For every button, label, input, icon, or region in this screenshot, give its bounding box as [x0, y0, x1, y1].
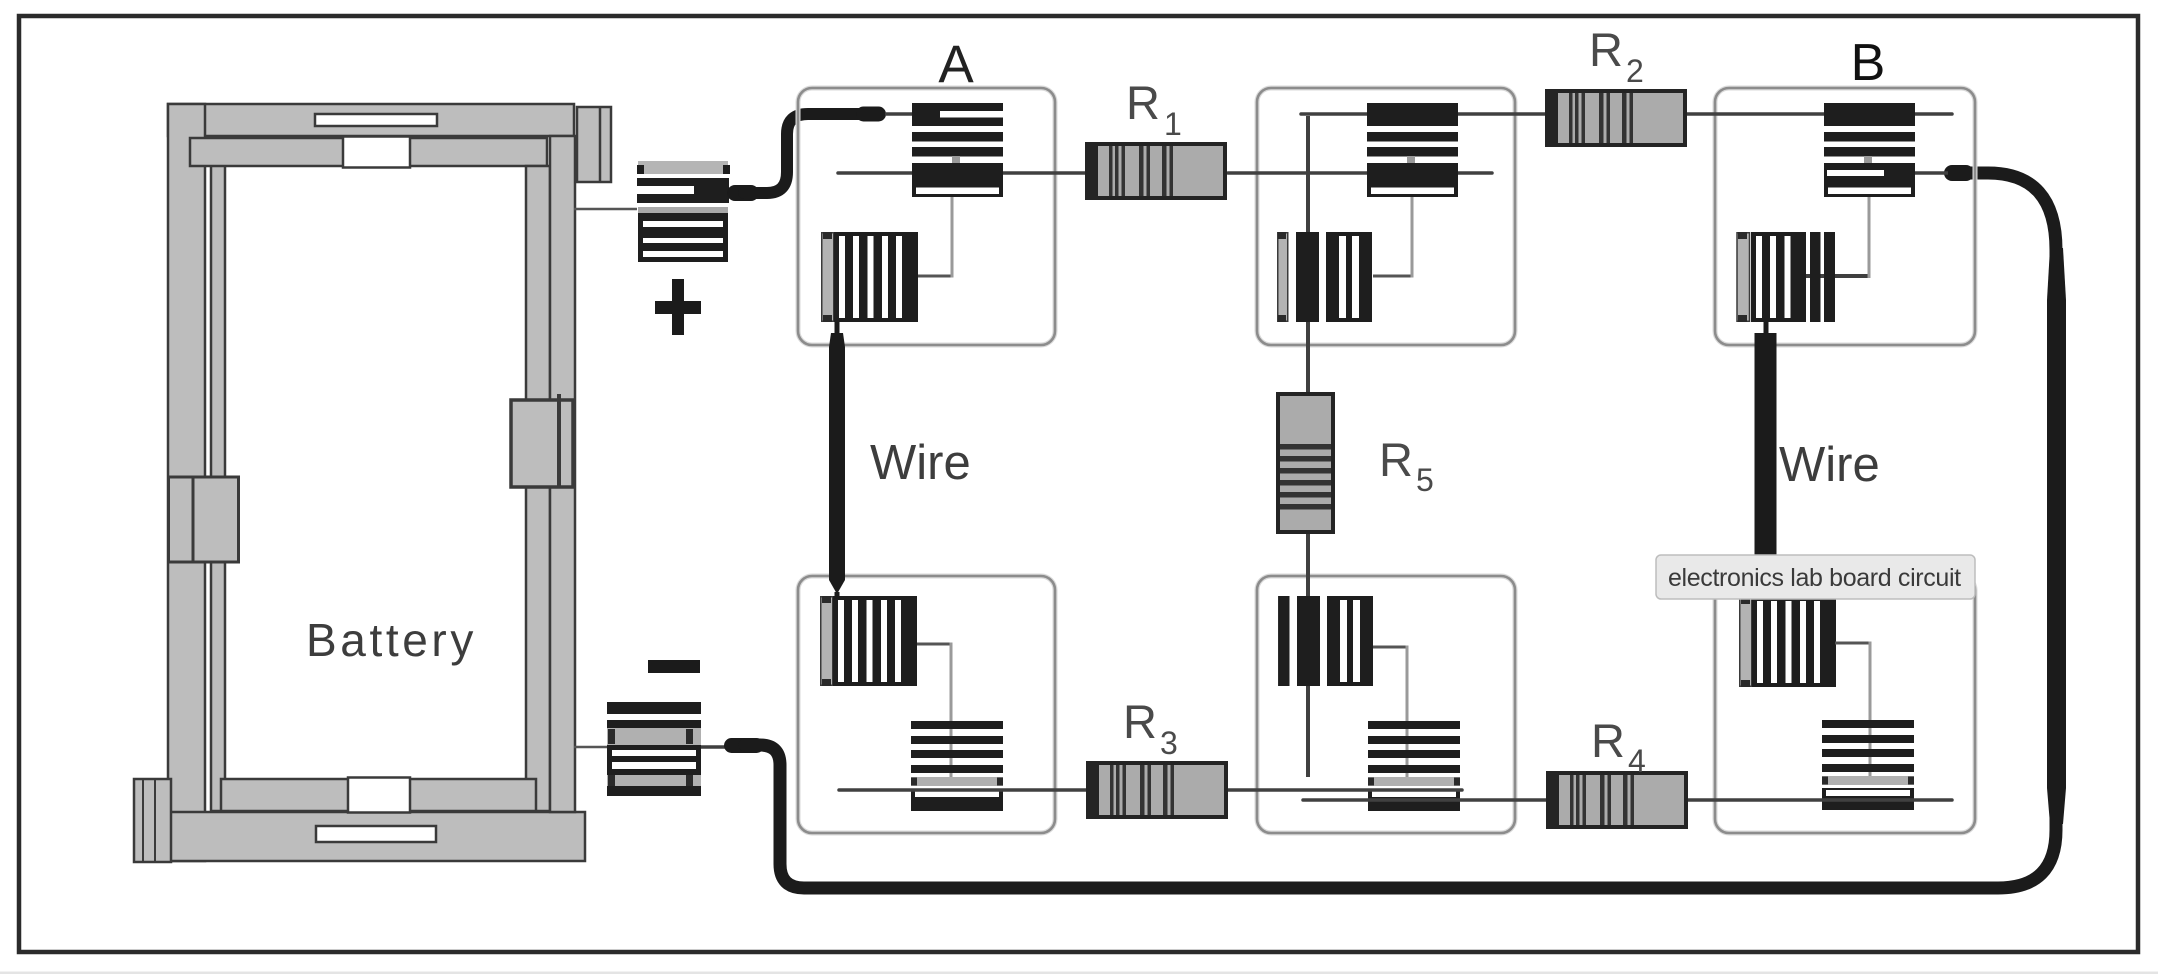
middle box internal lead [1373, 197, 1412, 278]
middle box terminal block left [1278, 232, 1372, 322]
battery foot dividers [142, 779, 144, 862]
svg-text:4: 4 [1628, 743, 1646, 779]
svg-text:R: R [1591, 714, 1625, 767]
box4 terminal block bottom [911, 721, 1003, 811]
box4 terminal block top [821, 596, 917, 686]
box5 terminal block top [1279, 596, 1374, 686]
jumper wire left [829, 322, 845, 599]
tooltip [1656, 555, 1975, 599]
jumper wire right [1755, 322, 1777, 597]
node B internal lead [1802, 197, 1869, 278]
resistor R1 [1087, 144, 1225, 198]
vertical branch line to R5 [1306, 116, 1310, 392]
box6 terminal block top [1740, 597, 1836, 687]
node box bottom middle [1257, 576, 1515, 833]
box4 internal lead [917, 643, 951, 785]
svg-text:B: B [1851, 34, 1886, 92]
node box A [798, 88, 1055, 345]
node A terminal block top [912, 103, 1003, 197]
svg-text:1: 1 [1164, 106, 1182, 142]
resistor R3 [1088, 763, 1226, 817]
svg-text:Battery: Battery [306, 614, 477, 666]
svg-text:Wire: Wire [870, 436, 971, 490]
bottom line R4 into box6 [1687, 798, 1952, 802]
wire battery to plus terminal [574, 208, 637, 211]
node box bottom left [798, 576, 1055, 833]
svg-text:R: R [1379, 433, 1413, 486]
wire battery to minus terminal [574, 746, 607, 749]
minus symbol [648, 660, 700, 673]
thick wire plus terminal to node A [727, 107, 886, 202]
upper line R2 into node B [1687, 112, 1952, 116]
thick wire minus terminal along bottom to node B [701, 165, 2066, 888]
node A terminal block left [822, 232, 918, 322]
svg-text:Wire: Wire [1779, 438, 1880, 492]
svg-text:R: R [1589, 23, 1623, 76]
node B terminal block left [1737, 232, 1835, 322]
battery label window bottom [316, 826, 436, 842]
box6 terminal block bottom [1822, 720, 1914, 810]
upper line middle box to R2 [1301, 112, 1545, 116]
battery clip left [169, 477, 239, 562]
box5 terminal block bottom [1368, 721, 1460, 811]
node box B [1715, 88, 1975, 345]
node box bottom right [1715, 576, 1975, 833]
box5 internal lead [1373, 646, 1407, 785]
resistor R2 [1547, 91, 1685, 145]
battery inner frame notches [343, 137, 410, 168]
resistor R5 vertical [1278, 394, 1333, 532]
box6 internal lead [1835, 642, 1870, 784]
battery B1 [134, 104, 611, 862]
resistor R4 [1548, 773, 1686, 827]
svg-text:electronics lab board circuit: electronics lab board circuit [1668, 564, 1961, 592]
minus terminal connector [607, 702, 701, 796]
svg-text:3: 3 [1160, 725, 1178, 761]
node A internal lead [918, 197, 952, 278]
svg-text:R: R [1126, 76, 1160, 129]
plus terminal connector [637, 161, 730, 262]
plus symbol [655, 279, 701, 335]
battery clip right [511, 400, 573, 487]
svg-text:A: A [938, 35, 974, 94]
battery label window top [315, 114, 437, 126]
battery top-right divider [599, 107, 602, 182]
main line node A to R1 [838, 171, 1085, 175]
node B terminal block top [1824, 103, 1915, 197]
svg-text:R: R [1123, 695, 1157, 748]
upper line wire-end to A block [885, 112, 912, 116]
middle box terminal block top [1367, 103, 1458, 197]
svg-text:5: 5 [1416, 462, 1434, 498]
node box middle top [1257, 88, 1515, 345]
main line R1 into middle box [1228, 171, 1492, 175]
svg-text:2: 2 [1626, 53, 1644, 89]
bottom line R3 into middle box [1228, 788, 1462, 792]
bottom line box5 to R4 [1303, 798, 1546, 802]
bottom line box4 to R3 [839, 788, 1086, 792]
vertical line R5 to bottom middle box [1306, 534, 1310, 777]
line node B block to thick wire [1914, 171, 1948, 175]
